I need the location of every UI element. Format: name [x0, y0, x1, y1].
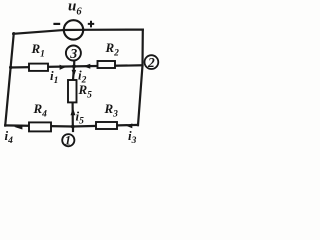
junction dot left rail: [9, 66, 12, 69]
arrow i4: [14, 125, 22, 130]
wire top rail left: [13, 30, 63, 34]
arrow i2: [72, 70, 77, 77]
wire top rail right: [84, 29, 143, 31]
wire middle branch upper: [73, 66, 74, 80]
wire chord through source u6: [64, 29, 84, 31]
wire right vertical: [138, 30, 143, 126]
junction dot at node 3 rail: [72, 65, 76, 69]
node 1: [62, 134, 74, 148]
svg-text:3: 3: [69, 47, 77, 62]
resistor R2: [98, 61, 116, 68]
wire node 3 stub: [73, 60, 75, 66]
svg-text:2: 2: [147, 55, 155, 70]
polarity plus: [88, 21, 94, 28]
resistor R3: [96, 122, 117, 129]
wire bottom rail: [5, 125, 138, 127]
resistor R5: [68, 80, 77, 102]
wire left vertical: [5, 33, 14, 125]
junction dot at node 1 rail: [71, 125, 75, 129]
wire node 1 stub: [72, 127, 74, 132]
arrow into node 3 from R2: [83, 64, 90, 69]
resistor R1: [29, 64, 48, 71]
node 3: [66, 46, 81, 62]
resistor R4: [29, 122, 51, 131]
node 2: [145, 55, 159, 70]
arrow i3: [126, 123, 132, 128]
wire middle branch lower: [71, 102, 73, 126]
polarity minus: [53, 23, 60, 25]
arrow i1: [60, 65, 66, 70]
arrow i5: [71, 108, 76, 116]
wire middle rail: [11, 65, 143, 67]
svg-text:1: 1: [65, 134, 71, 148]
voltage source U6 circle: [64, 20, 83, 39]
